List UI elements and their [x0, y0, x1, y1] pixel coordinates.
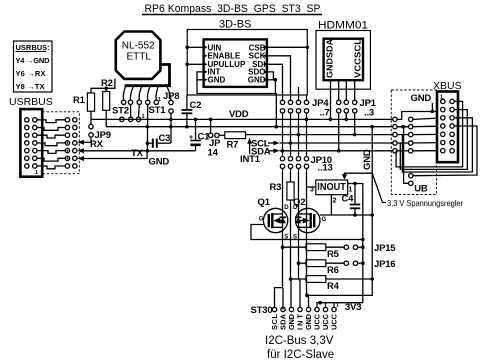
svg-text:RX: RX [90, 139, 104, 150]
jumper JP9 with RX label [89, 119, 111, 150]
svg-text:1: 1 [336, 303, 339, 309]
resistor R2 [101, 78, 113, 127]
svg-text:USRBUS:: USRBUS: [16, 43, 50, 52]
svg-text:S: S [293, 235, 297, 241]
svg-text:..7: ..7 [320, 108, 330, 119]
connector ST30 I2C header [251, 303, 339, 331]
dashed outline XBUS area [391, 90, 436, 195]
svg-text:3,3 V Spannungsregler: 3,3 V Spannungsregler [387, 198, 463, 208]
svg-text:HDMM01: HDMM01 [318, 20, 368, 32]
transistor Q1 [251, 169, 365, 288]
svg-text:G: G [322, 217, 327, 223]
legend box USRBUS pin table [14, 41, 53, 92]
title text RP6 Kompass 3D-BS GPS ST3 SP [142, 3, 322, 15]
svg-text:R5: R5 [327, 249, 340, 260]
svg-text:GND: GND [411, 93, 432, 104]
svg-text:Q1: Q1 [258, 197, 271, 208]
wire thick module lead [125, 65, 170, 86]
header UB [409, 174, 428, 195]
svg-text:JP8: JP8 [163, 91, 179, 102]
wires HDMM01 pins [331, 80, 355, 119]
label 3,3 V Spannungsregler pointer [342, 173, 463, 208]
jumper JP14 [208, 118, 222, 159]
svg-text:R1: R1 [73, 95, 86, 106]
svg-text:Y6 →RX: Y6 →RX [16, 69, 46, 78]
wires XBUS wrap-around [396, 101, 477, 183]
wire bus line 3 [246, 133, 395, 137]
svg-text:VDD: VDD [229, 109, 249, 120]
svg-text:14: 14 [208, 148, 219, 159]
pads USRBUS connector pins [25, 118, 37, 169]
node INT1 with arrow [240, 138, 261, 165]
svg-text:Y8 →TX: Y8 →TX [16, 82, 45, 91]
svg-text:NL-552: NL-552 [122, 41, 155, 52]
svg-text:C2: C2 [190, 100, 202, 111]
svg-text:GND: GND [248, 76, 266, 85]
wire RX arrow into USRBUS [78, 137, 92, 145]
wire column c4 VDD run [306, 169, 308, 296]
capacitor C3 [146, 133, 171, 148]
pads ST2 on VDD line [120, 117, 124, 121]
svg-text:..13: ..13 [318, 163, 333, 174]
wires module pin drops [123, 86, 171, 100]
wire TX arrow into USRBUS [78, 148, 85, 153]
wire regulator pin2 to Q2 gate [321, 195, 372, 215]
svg-text:Y4 →GND: Y4 →GND [16, 56, 51, 65]
svg-text:ST1: ST1 [149, 105, 167, 116]
module NL-552 ETTL [116, 32, 161, 79]
svg-text:XBUS: XBUS [433, 80, 462, 92]
svg-text:..3: ..3 [364, 108, 374, 119]
transistor Q2 [293, 169, 327, 280]
svg-text:INT1: INT1 [240, 154, 261, 165]
svg-text:GND: GND [149, 157, 170, 168]
net VDD bus line [91, 109, 395, 121]
svg-text:RP6 Kompass 3D-BS GPS ST3: RP6 Kompass 3D-BS GPS ST3 SP [145, 3, 321, 15]
svg-text:JP15: JP15 [374, 243, 396, 254]
wire GND arrow into USRBUS [78, 156, 85, 161]
svg-text:+: + [189, 135, 193, 142]
svg-text:VCCSCL: VCCSCL [354, 39, 363, 78]
connector XBUS [437, 92, 458, 163]
header JP10 [280, 155, 332, 174]
resistor R6 and jumper JP16 [297, 259, 396, 276]
op-amp U1 3D-BS sensor IC [203, 39, 269, 87]
svg-text:GND: GND [208, 76, 226, 85]
header JP1 [337, 98, 377, 153]
capacitor C1 polarized [189, 118, 210, 151]
wires USRBUS zigzag [37, 120, 65, 169]
resistor R7 [219, 132, 245, 151]
wires 3D-BS left pins [187, 47, 276, 126]
svg-text:R6: R6 [327, 265, 339, 276]
dashed outline USRBUS area [42, 112, 79, 174]
svg-text:für I2C-Slave: für I2C-Slave [267, 349, 334, 361]
wires ST30 pins and node 3V3 [275, 279, 363, 310]
node SDA with arrow [251, 147, 395, 158]
svg-text:1: 1 [158, 97, 161, 103]
wires 3D-BS right pins [268, 47, 307, 100]
svg-text:ST2: ST2 [112, 106, 129, 117]
svg-text:I2C-Bus 3,3V: I2C-Bus 3,3V [265, 335, 334, 347]
svg-text:R2: R2 [101, 78, 113, 89]
header JP4 [280, 98, 329, 157]
headers ST2 ST1 and jumper JP8 [112, 91, 179, 120]
svg-text:R3: R3 [270, 182, 282, 193]
wires header pins down [131, 105, 172, 151]
pads USRBUS breakout pins [65, 118, 77, 169]
resistor R1 [73, 79, 115, 120]
resistor R3 [270, 169, 295, 280]
wire GND vertical run [305, 127, 374, 298]
svg-text:G: G [259, 217, 264, 223]
module HDMM01 compass IC [316, 20, 370, 90]
svg-text:R4: R4 [327, 281, 340, 292]
capacitor C2 [182, 95, 202, 127]
svg-text:UCC: UCC [330, 313, 339, 330]
svg-text:C4: C4 [342, 194, 355, 205]
svg-text:GND: GND [362, 149, 373, 170]
svg-text:C3: C3 [159, 133, 171, 144]
svg-text:GNDSDA: GNDSDA [326, 39, 335, 78]
svg-text:TX: TX [131, 148, 144, 159]
node SCL with arrow [251, 139, 395, 150]
resistor R4 [289, 276, 373, 292]
svg-text:D: D [284, 205, 289, 211]
connector USRBUS [20, 109, 42, 177]
svg-text:R7: R7 [227, 140, 239, 151]
svg-text:INOUT: INOUT [317, 182, 346, 193]
svg-text:USRBUS: USRBUS [9, 96, 53, 108]
voltage regulator U2 IN OUT [307, 180, 363, 303]
svg-text:UB: UB [414, 184, 428, 195]
capacitor C4 [342, 184, 361, 217]
wire bus line 2 [106, 118, 411, 129]
pads XBUS breakout columns [393, 103, 441, 153]
svg-text:JP16: JP16 [374, 259, 395, 270]
svg-text:D: D [293, 205, 298, 211]
svg-text:1: 1 [349, 187, 353, 194]
module frame 3D-BS [185, 19, 309, 96]
resistor R5 and jumper JP15 [281, 243, 397, 260]
svg-text:3D-BS: 3D-BS [219, 19, 251, 31]
wires TX and GND nets [83, 148, 196, 168]
svg-text:3V3: 3V3 [345, 302, 361, 313]
svg-text:1: 1 [35, 170, 38, 176]
svg-text:2: 2 [333, 198, 337, 205]
svg-text:ETTL: ETTL [127, 52, 152, 63]
